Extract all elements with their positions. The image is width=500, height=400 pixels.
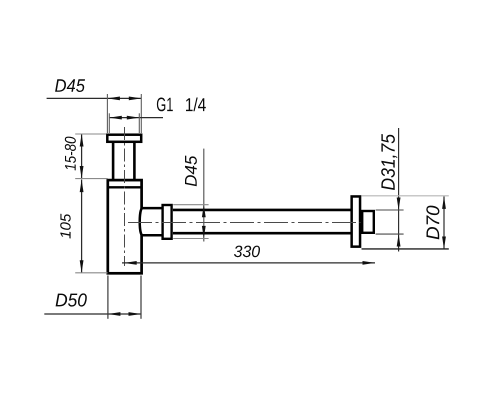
dimension D70 label	[426, 206, 439, 240]
top flange (sink)	[107, 135, 141, 142]
dimension D45 top: line + arrows	[47, 97, 142, 99]
dimension G1 1/4: line + arrows	[109, 117, 163, 119]
dimension 330 label	[234, 246, 260, 258]
extension line D70 top (flange top, light)	[362, 195, 449, 197]
dimension 15-80 label	[65, 137, 76, 171]
dimension 105: vertical line + arrows	[81, 180, 83, 273]
extension lines D50 (bottle walls)	[107, 276, 109, 319]
dimension 105 label	[60, 214, 70, 239]
tailpipe vertical walls	[112, 143, 115, 181]
extension lines D31,75 (stub edges)	[376, 209, 404, 211]
wall flange	[352, 196, 360, 246]
dimension D45 (outlet nut) label	[185, 156, 197, 187]
dimension D31,75 label	[381, 134, 397, 190]
wall pipe stub	[362, 211, 374, 233]
dimension D50: line + arrows	[44, 313, 141, 315]
extension line D70 bottom (flange bottom)	[362, 248, 449, 250]
dimension D31,75: vertical line + outside arrows	[398, 128, 400, 252]
extension lines D45 top	[106, 94, 108, 133]
centerline horizontal (outlet pipe axis)	[128, 222, 361, 224]
label G1 1/4	[157, 98, 173, 112]
outlet boss (rounded)	[140, 208, 163, 235]
centerline vertical (trap axis)	[124, 127, 126, 266]
extension line at bottle bottom	[75, 272, 107, 274]
extension lines G1 1/4	[108, 113, 110, 133]
dimension D45 outlet: vertical line + arrows	[203, 149, 205, 242]
dimension D70: vertical line + arrows	[443, 196, 445, 249]
outlet compression nut	[163, 205, 172, 239]
dimension D45 (top flange) label	[55, 79, 85, 92]
dimension D50 label	[56, 293, 87, 306]
extension line at bottle top	[75, 178, 108, 180]
bottle trap body	[108, 180, 142, 273]
extension lines D45 outlet (nut edges)	[173, 204, 208, 206]
bottle top nut band line	[107, 186, 143, 188]
dimension 330: line + arrows	[122, 262, 375, 264]
dimension 15-80: vertical line + arrows	[81, 134, 83, 179]
outlet pipe walls	[173, 209, 351, 212]
extension line at flange top	[75, 133, 106, 135]
